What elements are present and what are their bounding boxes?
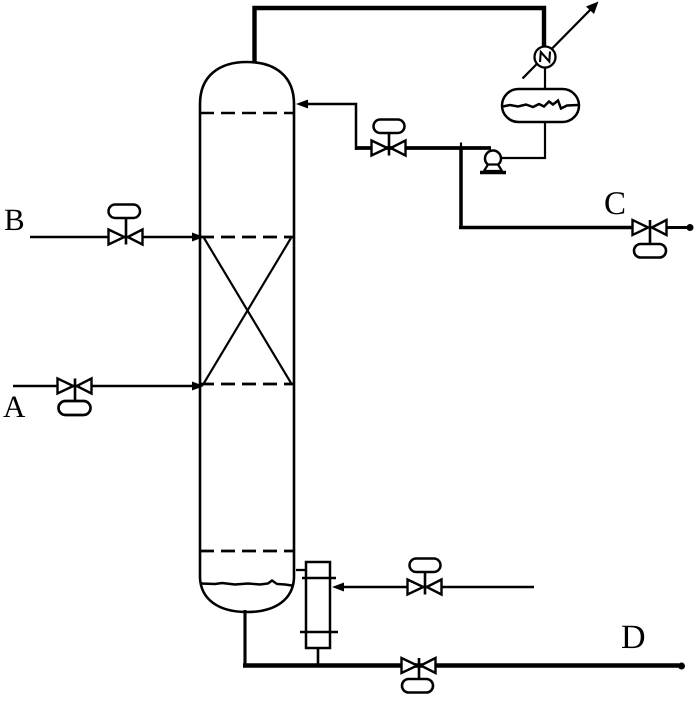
A valve actuator [59, 401, 91, 415]
C valve stem [649, 220, 652, 244]
B valve actuator [109, 205, 141, 219]
reflux arrow into column [296, 100, 308, 109]
bottoms outlet [243, 610, 246, 666]
condenser to drum line [544, 68, 546, 90]
D valve actuator [402, 679, 433, 693]
bottoms liquid level [201, 581, 292, 586]
reboiler tube sheet bottom [300, 631, 338, 634]
tray dashed line top [200, 112, 294, 115]
B arrow into column [192, 233, 204, 242]
arrow into reboiler [332, 583, 344, 592]
label B [5, 210, 23, 230]
D valve stem [418, 658, 421, 679]
reboiler heating line [344, 586, 534, 589]
pump base [484, 165, 502, 172]
condenser E-1 [535, 47, 556, 68]
A control valve body [58, 379, 92, 394]
feed B line [30, 236, 196, 238]
tray dashed line bottom [200, 550, 294, 553]
heating valve actuator [410, 559, 441, 573]
reflux valve actuator [374, 120, 405, 134]
reflux control valve body [372, 141, 406, 156]
reflux riser to column [305, 104, 356, 150]
tray dashed line upper [200, 236, 294, 239]
overhead vapor line [255, 8, 545, 63]
label C [605, 192, 624, 214]
pump discharge / reflux line [356, 146, 491, 150]
B valve stem [125, 218, 128, 245]
D control valve body [402, 658, 436, 673]
junction tick [460, 143, 462, 149]
drum liquid level [503, 101, 578, 109]
reflux drum V-1 [502, 89, 579, 122]
packing X diagonal 2 [204, 238, 291, 383]
reboiler E-2 shell [306, 562, 330, 648]
packing X diagonal 1 [204, 238, 291, 383]
feed A line [13, 385, 196, 387]
reboiler bottom stub [317, 648, 320, 664]
label D [622, 626, 644, 648]
A valve stem [74, 379, 77, 402]
heating control valve body [408, 580, 442, 595]
B control valve body [109, 230, 143, 245]
drum outlet to pump [501, 122, 545, 158]
A arrow into column [192, 382, 204, 391]
product C line [459, 226, 634, 230]
C line outlet [666, 226, 687, 229]
tray dashed line lower [200, 383, 294, 386]
reflux valve stem [388, 133, 391, 156]
column C-1 shell [200, 62, 294, 612]
reboiler vapor return [296, 569, 306, 571]
pump P-1 [485, 151, 501, 167]
reboiler tube sheet top [302, 577, 336, 580]
condenser utility line with arrow [523, 6, 595, 79]
product D line [243, 663, 679, 667]
heating valve stem [424, 572, 427, 595]
branch down to product C [459, 148, 463, 228]
condenser coil N [540, 52, 550, 63]
C valve actuator [634, 244, 666, 258]
C control valve body [633, 220, 667, 235]
label A [3, 397, 25, 417]
